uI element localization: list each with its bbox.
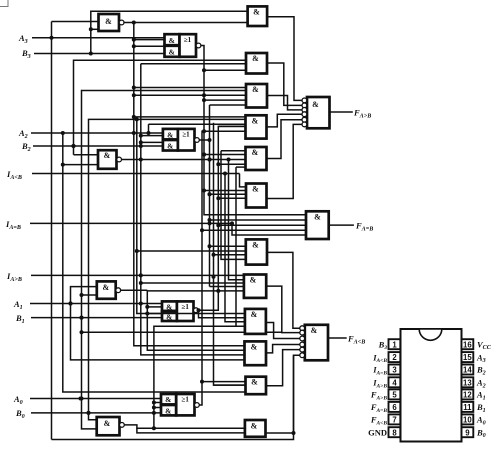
svg-text:1: 1 (392, 340, 397, 349)
wire G4 in4 (216, 162, 245, 166)
svg-text:VCC: VCC (477, 339, 492, 351)
rail G4b (227, 158, 245, 280)
wire G2 in5 (210, 104, 247, 106)
corner artifact (0, 0, 8, 7)
pin 9 box (462, 427, 486, 439)
wire B2 to NAND2 in1 (74, 154, 99, 156)
svg-text:15: 15 (463, 353, 472, 362)
wire B3 to NAND3 in2 (91, 28, 99, 30)
wire AOI1 to F=B (218, 224, 306, 226)
svg-text:B0: B0 (15, 408, 25, 420)
wire G5 in2 (204, 190, 246, 192)
pin 6 box (370, 402, 400, 414)
AND gate G4 (246, 147, 267, 170)
wire B0 to AOI0 (87, 411, 162, 415)
svg-text:2: 2 (392, 353, 397, 362)
pin 5 box (370, 389, 400, 401)
wire G3 in2 (147, 124, 246, 135)
svg-text:7: 7 (392, 416, 396, 425)
svg-text:IA>B: IA>B (372, 378, 387, 390)
wire F A=B output (329, 224, 354, 226)
svg-text:&: & (165, 406, 171, 415)
svg-text:10: 10 (463, 416, 472, 425)
pin 12 box (462, 389, 486, 401)
svg-text:&: & (253, 8, 260, 17)
svg-text:B3: B3 (378, 339, 388, 351)
AND gate GT (248, 6, 268, 26)
NAND gate N3 (99, 14, 125, 31)
svg-text:&: & (169, 36, 175, 45)
rail G4c (230, 221, 306, 235)
wire N0 to AOI0 in2 (154, 402, 161, 404)
input B1 label (15, 313, 82, 325)
svg-text:A3: A3 (18, 33, 28, 45)
svg-text:&: & (250, 276, 257, 285)
AND gate G6 (246, 239, 267, 264)
input B2 label (21, 141, 74, 153)
svg-text:&: & (166, 302, 172, 311)
rail N2 up-down (139, 64, 245, 355)
wire G4 in1 (221, 150, 246, 152)
svg-text:≥1: ≥1 (184, 36, 192, 44)
svg-text:11: 11 (463, 403, 472, 412)
wire G7 output (266, 286, 302, 333)
svg-text:&: & (311, 326, 318, 335)
wire G4 output (267, 120, 303, 159)
AND gate AOI3a (165, 34, 180, 45)
wire N0 to AOI0 in3 (154, 407, 161, 409)
svg-text:&: & (252, 185, 259, 194)
rail N1 down (145, 290, 244, 350)
rail G4d (236, 167, 245, 326)
wire AOI0 to F=B (202, 229, 306, 231)
svg-text:&: & (314, 213, 321, 222)
wire G11 output (266, 432, 294, 434)
pin 15 box (462, 352, 486, 364)
svg-text:&: & (252, 148, 259, 157)
wire F A<B output (328, 337, 347, 339)
svg-text:FA>B: FA>B (370, 390, 387, 402)
svg-text:A3: A3 (476, 352, 486, 364)
rail A2 down (61, 133, 246, 392)
bottom bus wire (52, 355, 294, 439)
wire AOI3 output (201, 46, 306, 215)
wire G2 in3 (132, 93, 246, 97)
wire AOI1 output (198, 126, 245, 310)
wire G11 in2 (137, 428, 245, 433)
svg-text:&: & (104, 151, 111, 160)
wire N1 to AOI1 in2 (147, 306, 162, 308)
wire A2 to NAND2 in2 (63, 164, 98, 166)
svg-text:A0: A0 (13, 394, 23, 406)
wire N2 to G1 in3 (141, 63, 246, 65)
pin 11 box (462, 402, 486, 414)
pin 13 box (462, 377, 486, 389)
wire N0 output jog (124, 425, 245, 428)
svg-text:FA=B: FA=B (355, 221, 373, 233)
AND gate AOI3b (165, 46, 180, 57)
wire A3 to AOI3 (50, 36, 165, 40)
input IA<B label (6, 169, 240, 181)
NAND gate FLT (305, 325, 328, 361)
input IA=B label (5, 219, 232, 231)
svg-text:&: & (252, 241, 259, 250)
wire G1 in4 (202, 68, 246, 72)
wire G9 output (266, 345, 302, 353)
wire G8 in2 (197, 308, 245, 318)
NAND gate N0 (97, 417, 125, 435)
wire G10 in2 (214, 384, 246, 386)
wire tap to G9 row (80, 330, 282, 334)
svg-text:B3: B3 (21, 48, 31, 60)
pin 16 box (462, 339, 492, 351)
label F A<B (347, 334, 365, 346)
rail G2mid (135, 117, 245, 313)
svg-text:B2: B2 (21, 141, 31, 153)
wire N3 to AOI3 in3 (134, 45, 165, 47)
wire A0 to AOI0 (79, 397, 162, 401)
wire G6 output (267, 252, 302, 328)
wire G4 in2 (202, 153, 246, 157)
wire G3 in3 (218, 125, 245, 127)
rail G3b (221, 151, 246, 260)
rail N0 up (152, 326, 245, 430)
wire G7 in3 (210, 286, 244, 288)
svg-text:&: & (102, 283, 109, 292)
AND gate AOI0a (161, 394, 176, 404)
pin 10 box (462, 414, 486, 426)
AND gate G10 (246, 377, 267, 395)
svg-text:5: 5 (392, 391, 397, 400)
svg-text:≥1: ≥1 (182, 396, 190, 404)
svg-text:&: & (167, 142, 173, 151)
AND gate G9 (245, 341, 267, 365)
wire B3 to AOI3 (89, 52, 165, 56)
AND gate AOI0b (161, 405, 176, 415)
rail B3 up (89, 11, 248, 53)
wire G10 output (266, 350, 302, 386)
wire N3 to AOI3 in2 (134, 39, 165, 41)
svg-text:&: & (251, 343, 258, 352)
rail B2 (72, 60, 247, 155)
wire N1 output (121, 289, 148, 291)
wire AOI0 output (199, 131, 245, 405)
wire G6 in3 (212, 253, 246, 257)
pin 14 box (462, 365, 486, 377)
svg-text:&: & (251, 422, 258, 431)
input A3 label (18, 33, 52, 45)
wire G5 in3 (208, 192, 247, 196)
rail G3mid (212, 123, 246, 385)
wire G5 in4 (216, 196, 246, 200)
label F A>B (353, 108, 371, 120)
wire F A>B output (330, 111, 353, 113)
pin 3 box (372, 365, 400, 377)
svg-text:12: 12 (463, 391, 472, 400)
wire A3 up to NAND3 (52, 21, 99, 23)
svg-text:6: 6 (392, 403, 397, 412)
wire G10 in1 (202, 381, 246, 383)
AND gate G1 (246, 53, 267, 74)
svg-text:&: & (165, 395, 171, 404)
pin 7 box (370, 414, 400, 426)
svg-text:4: 4 (392, 378, 397, 387)
AND gate G2 (246, 84, 267, 108)
input IA>B label (6, 271, 244, 283)
svg-text:&: & (169, 48, 175, 57)
DIP body (401, 329, 462, 442)
FLT input bubbles (300, 326, 305, 358)
NOR gate AOI2c (178, 129, 199, 151)
rail N3 output down (132, 23, 245, 346)
wire G5 output (267, 124, 303, 198)
wire N3 output (124, 21, 248, 25)
AND gate AOI1b (162, 312, 177, 322)
wire B1 branch to NAND1 (80, 293, 97, 297)
svg-text:IA<B: IA<B (6, 169, 22, 181)
pin 1 box (378, 339, 401, 351)
svg-text:A2: A2 (18, 128, 28, 140)
svg-text:&: & (104, 419, 111, 428)
wire G7 in4 (147, 290, 244, 292)
wire FEQ in1 (204, 214, 306, 216)
wire G8 in3 (225, 321, 245, 323)
label F A=B (355, 221, 373, 233)
svg-text:IA<B: IA<B (372, 352, 387, 364)
input A2 label (18, 128, 63, 140)
svg-text:A0: A0 (476, 415, 486, 427)
wire G1 output (267, 63, 302, 105)
pin 8 box (368, 427, 400, 437)
svg-text:FA<B: FA<B (347, 334, 365, 346)
NOR gate AOI3c (180, 34, 201, 57)
svg-text:FA>B: FA>B (353, 108, 371, 120)
svg-text:&: & (312, 100, 319, 109)
svg-text:&: & (252, 85, 259, 94)
svg-text:A1: A1 (13, 299, 23, 311)
wire N2 to AOI2 in3 (141, 141, 163, 143)
svg-text:≥1: ≥1 (182, 131, 190, 139)
NAND gate N2 (98, 150, 122, 169)
wire G4 in5 (236, 166, 246, 168)
wire B1 to AOI1 (80, 316, 163, 320)
wire G7 in2 (139, 281, 244, 285)
svg-text:13: 13 (463, 378, 472, 387)
rail B0 long (87, 119, 246, 419)
svg-text:FA=B: FA=B (370, 402, 387, 414)
wire G2 in1 (134, 87, 246, 89)
wire AOI2 to F=B (210, 219, 307, 221)
NOR gate AOI1c (177, 301, 198, 321)
svg-text:IA=B: IA=B (372, 365, 387, 377)
rail G4a (223, 172, 245, 322)
svg-text:3: 3 (392, 366, 397, 375)
svg-text:&: & (167, 130, 173, 139)
svg-text:A2: A2 (476, 378, 486, 390)
wire GT output (267, 17, 302, 101)
wire AOI2 output (199, 139, 209, 141)
wire A2 to AOI2 (61, 131, 163, 135)
wire G3 output (267, 114, 303, 127)
wire G9 in4 (69, 287, 245, 360)
wire N2 output (122, 158, 246, 162)
AND gate AOI1a (162, 301, 177, 311)
AND gate AOI2a (163, 129, 178, 140)
input A1 label (13, 299, 71, 311)
svg-text:&: & (251, 310, 258, 319)
wire G6 in1 (210, 245, 246, 247)
wire N2 to AOI2 in2 (141, 135, 163, 137)
FGT input bubbles (302, 98, 307, 127)
wire G6 in2 (137, 250, 246, 252)
AND gate G8 (245, 309, 266, 334)
svg-text:16: 16 (463, 340, 472, 349)
wire G5 in1 (240, 174, 247, 187)
svg-text:A1: A1 (476, 390, 486, 402)
NAND gate N1 (97, 281, 121, 298)
wire B2 to AOI2 (72, 144, 163, 148)
AND gate AOI2b (163, 140, 178, 151)
wire G11 up to F A<B (292, 355, 303, 435)
rail A3 left (51, 22, 53, 440)
svg-text:14: 14 (463, 366, 472, 375)
input B0 label (15, 408, 89, 420)
svg-text:≥1: ≥1 (182, 303, 190, 311)
wire G9 in2 (147, 349, 244, 351)
AND gate G7 (244, 275, 266, 298)
svg-text:IA>B: IA>B (6, 271, 22, 283)
svg-text:8: 8 (392, 428, 397, 437)
wire G3 in4 (202, 130, 246, 132)
AND gate G11 (245, 420, 266, 437)
wire G2 in2 head (81, 90, 84, 92)
NOR gate AOI0c (176, 394, 199, 415)
svg-text:&: & (252, 54, 259, 63)
input A0 label (13, 394, 81, 406)
svg-text:B1: B1 (476, 402, 486, 414)
input B3 label (21, 48, 91, 60)
svg-text:B1: B1 (15, 313, 25, 325)
AND gate G3 (246, 115, 267, 138)
AND gate FEQ (306, 211, 329, 239)
svg-text:&: & (252, 116, 259, 125)
wire G2 output (267, 96, 302, 110)
svg-text:9: 9 (465, 428, 470, 437)
wire G8 output (266, 323, 302, 339)
rail AOI2 vert (208, 105, 212, 287)
svg-text:B0: B0 (476, 427, 486, 439)
wire G3 in0 (132, 115, 246, 119)
svg-text:B2: B2 (476, 365, 486, 377)
NAND gate FGT (307, 97, 330, 128)
wire A1 to AOI1 (69, 302, 163, 306)
pin 4 box (372, 377, 400, 389)
svg-text:&: & (105, 17, 112, 26)
pin 2 box (372, 352, 400, 364)
svg-text:FA<B: FA<B (370, 415, 387, 427)
wire N1 to AOI1 in3 (147, 313, 162, 315)
svg-text:GND: GND (368, 427, 387, 437)
wire G2 in4 (202, 98, 246, 102)
svg-text:&: & (251, 378, 258, 387)
rail B1 long (80, 91, 246, 429)
svg-text:IA=B: IA=B (5, 219, 21, 231)
AND gate G5 (246, 184, 267, 208)
